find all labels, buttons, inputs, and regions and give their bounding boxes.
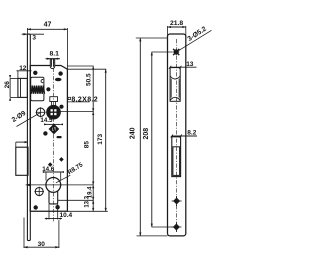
ext slot bottom xyxy=(58,199,94,201)
follower hub xyxy=(47,106,60,119)
dim 47 line xyxy=(27,28,67,30)
svg-text:50.5: 50.5 xyxy=(85,73,92,86)
dim 10.4 arrows xyxy=(46,218,61,220)
svg-text:240: 240 xyxy=(130,127,137,139)
spring zigzag xyxy=(31,86,44,94)
dim 8.1 arrows xyxy=(47,58,58,60)
svg-text:13: 13 xyxy=(186,61,194,68)
vertical centerline xyxy=(52,60,54,222)
deadbolt xyxy=(16,147,28,175)
diamond detail right xyxy=(59,157,64,162)
screw post top-right xyxy=(58,71,62,75)
latch cutout inner walls xyxy=(170,79,172,98)
cylinder hole circle xyxy=(46,178,61,193)
svg-text:12: 12 xyxy=(19,65,27,72)
dim 14.6 arrows xyxy=(43,171,64,173)
ext hub center xyxy=(60,111,94,113)
dim 208 ext bottom xyxy=(152,226,173,228)
cylinder slot xyxy=(49,191,58,204)
latch cutout top arc xyxy=(170,76,180,79)
spring box xyxy=(31,77,44,101)
screw post top-left xyxy=(33,71,37,75)
dim 12 ext xyxy=(17,71,19,79)
dim 10.4 ext lines xyxy=(48,204,50,220)
label square 8.2X8.2 xyxy=(68,97,98,104)
svg-text:30: 30 xyxy=(38,241,46,248)
latch bevel line xyxy=(20,78,22,97)
deadbolt throw line xyxy=(16,141,28,143)
deadbolt cutout outer xyxy=(172,137,181,177)
arrows on stack xyxy=(92,66,94,111)
dim 14.6 line xyxy=(43,171,63,173)
dim 173 arrows xyxy=(105,69,107,211)
dim 10.4 line xyxy=(45,218,62,220)
dim 30 ext left xyxy=(23,218,25,249)
svg-text:26: 26 xyxy=(4,81,11,89)
ext line 50.5 top xyxy=(67,65,93,67)
diamond detail left xyxy=(48,162,53,167)
dim 47 extension left xyxy=(26,28,28,34)
bottom screw hole xyxy=(171,222,181,232)
svg-text:8.2X8.2: 8.2X8.2 xyxy=(71,97,98,104)
svg-text:13.3: 13.3 xyxy=(85,195,91,207)
dim 26 ext top xyxy=(10,77,18,79)
svg-text:10.4: 10.4 xyxy=(60,212,73,219)
latch bolt xyxy=(18,78,28,97)
dim 3 arrow xyxy=(23,33,27,35)
lock case outline xyxy=(30,66,67,212)
dim 13 line xyxy=(170,66,196,68)
lever lens detail xyxy=(55,78,62,82)
rivet detail xyxy=(46,87,50,91)
ext case bottom xyxy=(67,210,108,212)
svg-text:8.1: 8.1 xyxy=(49,51,59,58)
dim 14.5 line xyxy=(45,123,61,125)
post bottom-right xyxy=(55,205,59,209)
follower guide lines xyxy=(50,102,52,107)
dim 30 arrows xyxy=(24,246,59,248)
latch cutout xyxy=(170,68,180,102)
ext line 173 top xyxy=(67,68,106,70)
dim 240 arrows xyxy=(139,38,141,236)
countersunk hole center xyxy=(49,124,59,134)
dim 240 ext top xyxy=(136,37,168,39)
top screw hole xyxy=(173,49,179,55)
dim 47 arrows xyxy=(27,28,67,30)
dim 8.2 line xyxy=(172,135,197,137)
spring hook detail xyxy=(41,80,43,83)
cylinder h-centerline xyxy=(26,184,93,186)
dim 12 line xyxy=(17,70,32,72)
post mid-right xyxy=(59,105,63,109)
dim 173 line xyxy=(105,69,107,211)
post mid-left xyxy=(43,131,47,135)
ext line 47 right xyxy=(66,28,68,69)
middle screw hole xyxy=(172,196,182,206)
svg-text:173: 173 xyxy=(97,133,104,144)
faceplate xyxy=(27,34,30,241)
dim 30 line xyxy=(24,246,60,248)
hole 2-09 lower xyxy=(34,187,44,197)
dim 8.1 line xyxy=(46,58,60,60)
svg-text:47: 47 xyxy=(44,22,52,29)
follower guide rect xyxy=(50,97,58,102)
svg-text:208: 208 xyxy=(143,128,150,140)
dim 21.8 arrows xyxy=(168,26,186,28)
leader 3-05.2 xyxy=(179,30,212,50)
dim 13 ticks xyxy=(169,66,182,69)
post bottom-left xyxy=(34,205,38,209)
plate outline xyxy=(168,34,186,236)
dim 208 line xyxy=(151,52,153,227)
dim 21.8 ext xyxy=(167,26,169,36)
leader R8.75 xyxy=(56,175,70,183)
dim 3 line xyxy=(22,33,44,35)
dim 240 line xyxy=(139,38,141,236)
hole 2-09 upper xyxy=(36,107,46,117)
dim 26 ext bottom xyxy=(10,96,18,98)
dim 30 ext right xyxy=(58,220,60,248)
svg-text:8.2: 8.2 xyxy=(187,130,196,137)
plate centerline xyxy=(175,39,177,232)
latch cutout bottom arc xyxy=(170,97,180,100)
dim 21.8 line xyxy=(168,26,186,28)
dim 26 line xyxy=(9,78,11,97)
svg-text:3: 3 xyxy=(32,34,36,41)
deadbolt cutout inner xyxy=(173,147,180,176)
right dim stack line 50.5/85/19.4/13.3 xyxy=(92,66,94,211)
leader 2-09 xyxy=(17,113,41,127)
dim 26 arrows xyxy=(9,75,11,101)
small bar detail xyxy=(57,136,62,138)
dim 208 ext top xyxy=(152,51,173,53)
dim 240 ext bottom xyxy=(137,235,168,237)
follower pin xyxy=(50,59,54,69)
dim 208 arrows xyxy=(151,52,153,227)
dim 14.6 ext lines xyxy=(45,172,47,181)
svg-text:85: 85 xyxy=(84,141,91,149)
svg-text:21.8: 21.8 xyxy=(170,20,183,27)
svg-text:14.5: 14.5 xyxy=(40,117,53,124)
